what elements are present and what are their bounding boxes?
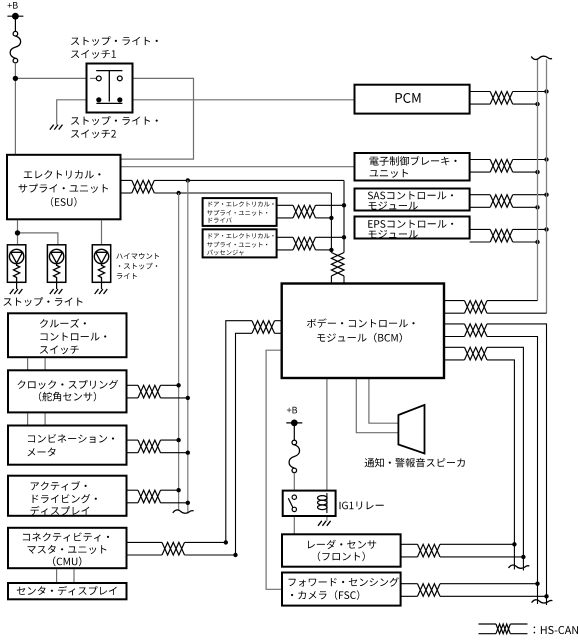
- twisted pair BCM-left HS-CAN: [252, 321, 275, 334]
- wire CAN vertical to BCM (left): [330, 193, 332, 253]
- wire switch2 to ground: [57, 100, 96, 125]
- wire CAN vertical to BCM (right): [343, 180, 345, 252]
- bus HS-CAN left line2: [187, 180, 189, 513]
- speaker notification alarm: [398, 405, 424, 454]
- ground IG1 relay: [318, 521, 322, 526]
- wire ESU to stop lamps: [17, 220, 19, 245]
- box electronic brake control unit: [355, 153, 470, 181]
- twisted pair EPS HS-CAN: [490, 229, 513, 242]
- wire vertical twist to BCM top: [330, 276, 332, 285]
- label brake unit: [370, 156, 457, 166]
- wire CMU pair tails: [185, 541, 226, 543]
- wire combination meter pair tails: [160, 439, 178, 441]
- wire BCM pair3 leads: [444, 346, 465, 348]
- wire BCM to FSC direct: [266, 350, 282, 589]
- node junction bus L1: [176, 191, 180, 195]
- wire ESU to high mount lamp: [101, 220, 103, 245]
- wire radar bus stubs: [513, 544, 515, 569]
- node junction +B/ESU: [13, 76, 18, 81]
- label door ESU driver: [209, 201, 274, 206]
- box cruise control switch: [8, 313, 127, 357]
- wire BCM to speaker lower: [356, 379, 398, 433]
- label clock spring: [18, 380, 119, 389]
- label radar sensor: [308, 540, 376, 549]
- wire BCM pair2 leads: [444, 323, 465, 325]
- twisted pair continuation radar: [509, 565, 530, 568]
- wire BCM to IG1 relay coil: [326, 379, 328, 495]
- twisted pair brake HS-CAN: [490, 160, 513, 173]
- twisted pair ESU HS-CAN: [132, 180, 155, 193]
- wire radar pair tails: [440, 543, 514, 545]
- box EPS control module: [355, 217, 470, 239]
- box clock spring steering angle sensor: [8, 370, 127, 412]
- twisted pair BCM-2 HS-CAN: [465, 324, 488, 337]
- lamp stop light left: [7, 245, 25, 282]
- wire clock spring leads: [127, 384, 139, 386]
- label +B: [8, 2, 18, 9]
- node junctions CMU: [224, 540, 228, 544]
- wire SAS leads: [470, 194, 491, 196]
- wire clock spring pair tails: [160, 384, 178, 386]
- wire combination meter leads: [127, 439, 139, 441]
- label SAS module: [368, 191, 453, 199]
- wire active driving display pair tails: [160, 489, 178, 491]
- label stop light switch 2: [71, 116, 158, 125]
- label center display: [17, 586, 117, 596]
- wire +B feed down to ESU: [14, 78, 16, 155]
- wire door driver pair tails: [316, 204, 345, 206]
- twisted pair BCM-1 HS-CAN: [465, 301, 488, 314]
- wire BCM to speaker upper: [369, 379, 399, 423]
- wire ESU to brake unit: [122, 166, 356, 168]
- wire BCM right pair2 tails: [487, 324, 547, 596]
- label combination meter: [28, 434, 114, 443]
- wire clock spring to combi stubs: [27, 413, 29, 425]
- node junctions door driver: [342, 203, 346, 207]
- box IG1 relay: [283, 491, 336, 516]
- label HS-CAN: [534, 626, 578, 634]
- node junctions SAS: [544, 193, 548, 197]
- wire BCM pair1 leads: [444, 300, 465, 302]
- wire CMU to center display stubs: [56, 569, 58, 583]
- label stop light lamps: [4, 297, 83, 306]
- wire PCM pair tails: [513, 91, 547, 93]
- wire BCM right pair3 tails: [487, 347, 523, 557]
- bus HS-CAN left line1: [178, 193, 180, 510]
- twisted pair SAS HS-CAN: [490, 195, 513, 208]
- lamp stop light right: [47, 245, 65, 282]
- wire FSC leads: [401, 583, 418, 585]
- label FSC: [289, 577, 399, 586]
- twisted pair clock spring HS-CAN: [138, 385, 161, 398]
- twisted pair door passenger HS-CAN: [293, 237, 316, 250]
- node junction stop lamps: [15, 230, 20, 235]
- label IG1 relay: [340, 502, 384, 510]
- label ESU: [24, 170, 101, 179]
- label door ESU passenger: [209, 233, 274, 238]
- box body control module BCM: [282, 284, 444, 379]
- twisted pair continuation top buses: [531, 56, 552, 59]
- wire ESU pair lead: [122, 179, 132, 181]
- wire BCM left leads: [275, 320, 282, 322]
- twisted pair CMU HS-CAN: [162, 542, 185, 555]
- label high mount stop light: [116, 253, 159, 259]
- wire BCM left pair tails: [226, 321, 252, 543]
- lamp high mount stop light: [92, 245, 110, 282]
- box center display: [8, 583, 127, 599]
- bus HS-CAN right line2: [546, 59, 548, 313]
- wire CMU leads: [127, 541, 163, 543]
- bus HS-CAN right line1: [537, 59, 539, 301]
- node junctions PCM: [544, 89, 548, 93]
- wire radar leads: [401, 543, 418, 545]
- label cruise control switch: [40, 319, 86, 328]
- label EPS module: [368, 220, 453, 228]
- box SAS control module: [355, 189, 470, 211]
- wire BCM right pair1 tails: [487, 300, 538, 302]
- twisted pair vertical to BCM: [331, 253, 344, 276]
- wire cruise to clock spring stubs: [27, 358, 29, 370]
- label speaker: [365, 458, 465, 467]
- switch1 contacts: [96, 70, 122, 72]
- wire brake pair tails: [513, 159, 547, 161]
- wire door passenger pair tails: [316, 236, 345, 238]
- label +B relay: [287, 407, 297, 414]
- wire switch1 output to ESU (via right): [122, 78, 194, 159]
- wire PCM leads: [470, 91, 491, 93]
- twisted pair active driving display HS-CAN: [138, 490, 161, 503]
- wire EPS pair tails: [513, 228, 547, 230]
- relay contact switch: [292, 495, 296, 499]
- box active driving display: [8, 476, 127, 516]
- box forward sensing camera FSC: [282, 573, 401, 606]
- legend twisted pair symbol: [479, 623, 497, 625]
- wire EPS leads: [470, 228, 491, 230]
- twisted pair combination meter HS-CAN: [138, 440, 161, 453]
- wire switch2 output to PCM: [123, 99, 356, 101]
- label PCM: [396, 93, 421, 103]
- wire FSC pair tails: [440, 583, 538, 585]
- box door electrical supply unit driver: [203, 198, 277, 226]
- switch2 contacts: [96, 102, 122, 104]
- node junctions FSC: [535, 582, 539, 586]
- wire SAS pair tails: [513, 194, 547, 196]
- node junctions radar: [512, 542, 516, 546]
- node junctions brake: [544, 157, 548, 161]
- twisted pair door driver HS-CAN: [293, 205, 316, 218]
- circuit breaker +B supply: [7, 15, 23, 17]
- wire relay coil to ground: [326, 512, 328, 521]
- twisted pair BCM-3 HS-CAN: [465, 347, 488, 360]
- ground stop light switch 2: [50, 125, 54, 130]
- node junction bus L2: [186, 178, 190, 182]
- label BCM: [307, 318, 415, 327]
- node junctions EPS: [544, 227, 548, 231]
- box connectivity master unit CMU: [8, 528, 127, 568]
- relay coil: [326, 493, 328, 513]
- box door electrical supply unit passenger: [203, 229, 277, 257]
- box combination meter: [8, 426, 127, 465]
- box PCM: [355, 85, 470, 114]
- circuit breaker +B relay supply: [286, 422, 302, 424]
- label active driving display: [31, 481, 87, 491]
- box stop light switch: [87, 64, 133, 113]
- wire relay to radar sensor: [293, 512, 295, 534]
- wire door passenger leads: [277, 236, 293, 238]
- label CMU: [23, 532, 109, 541]
- twisted pair radar HS-CAN: [418, 544, 441, 557]
- twisted pair PCM HS-CAN: [490, 92, 513, 105]
- wire branch to stop lamp 2: [18, 233, 58, 245]
- label stop light switch 1: [71, 36, 158, 45]
- wire brake leads: [470, 159, 491, 161]
- twisted pair continuation FSC: [532, 600, 553, 603]
- twisted pair continuation left buses: [173, 510, 194, 513]
- wire ESU CAN-L tail: [154, 192, 331, 194]
- wire active driving display leads: [127, 489, 139, 491]
- wire door driver leads: [277, 204, 293, 206]
- wire +B feed to stop light switch: [15, 77, 96, 79]
- node junctions combination meter: [176, 438, 180, 442]
- box ESU electrical supply unit: [7, 155, 121, 220]
- twisted pair FSC HS-CAN: [418, 584, 441, 597]
- node junctions clock spring: [176, 383, 180, 387]
- wire FSC bus stubs: [537, 584, 539, 604]
- box radar sensor front: [282, 534, 401, 566]
- node junctions active driving display: [176, 488, 180, 492]
- wire ESU CAN-H tail: [154, 179, 344, 181]
- node junctions door passenger: [342, 235, 346, 239]
